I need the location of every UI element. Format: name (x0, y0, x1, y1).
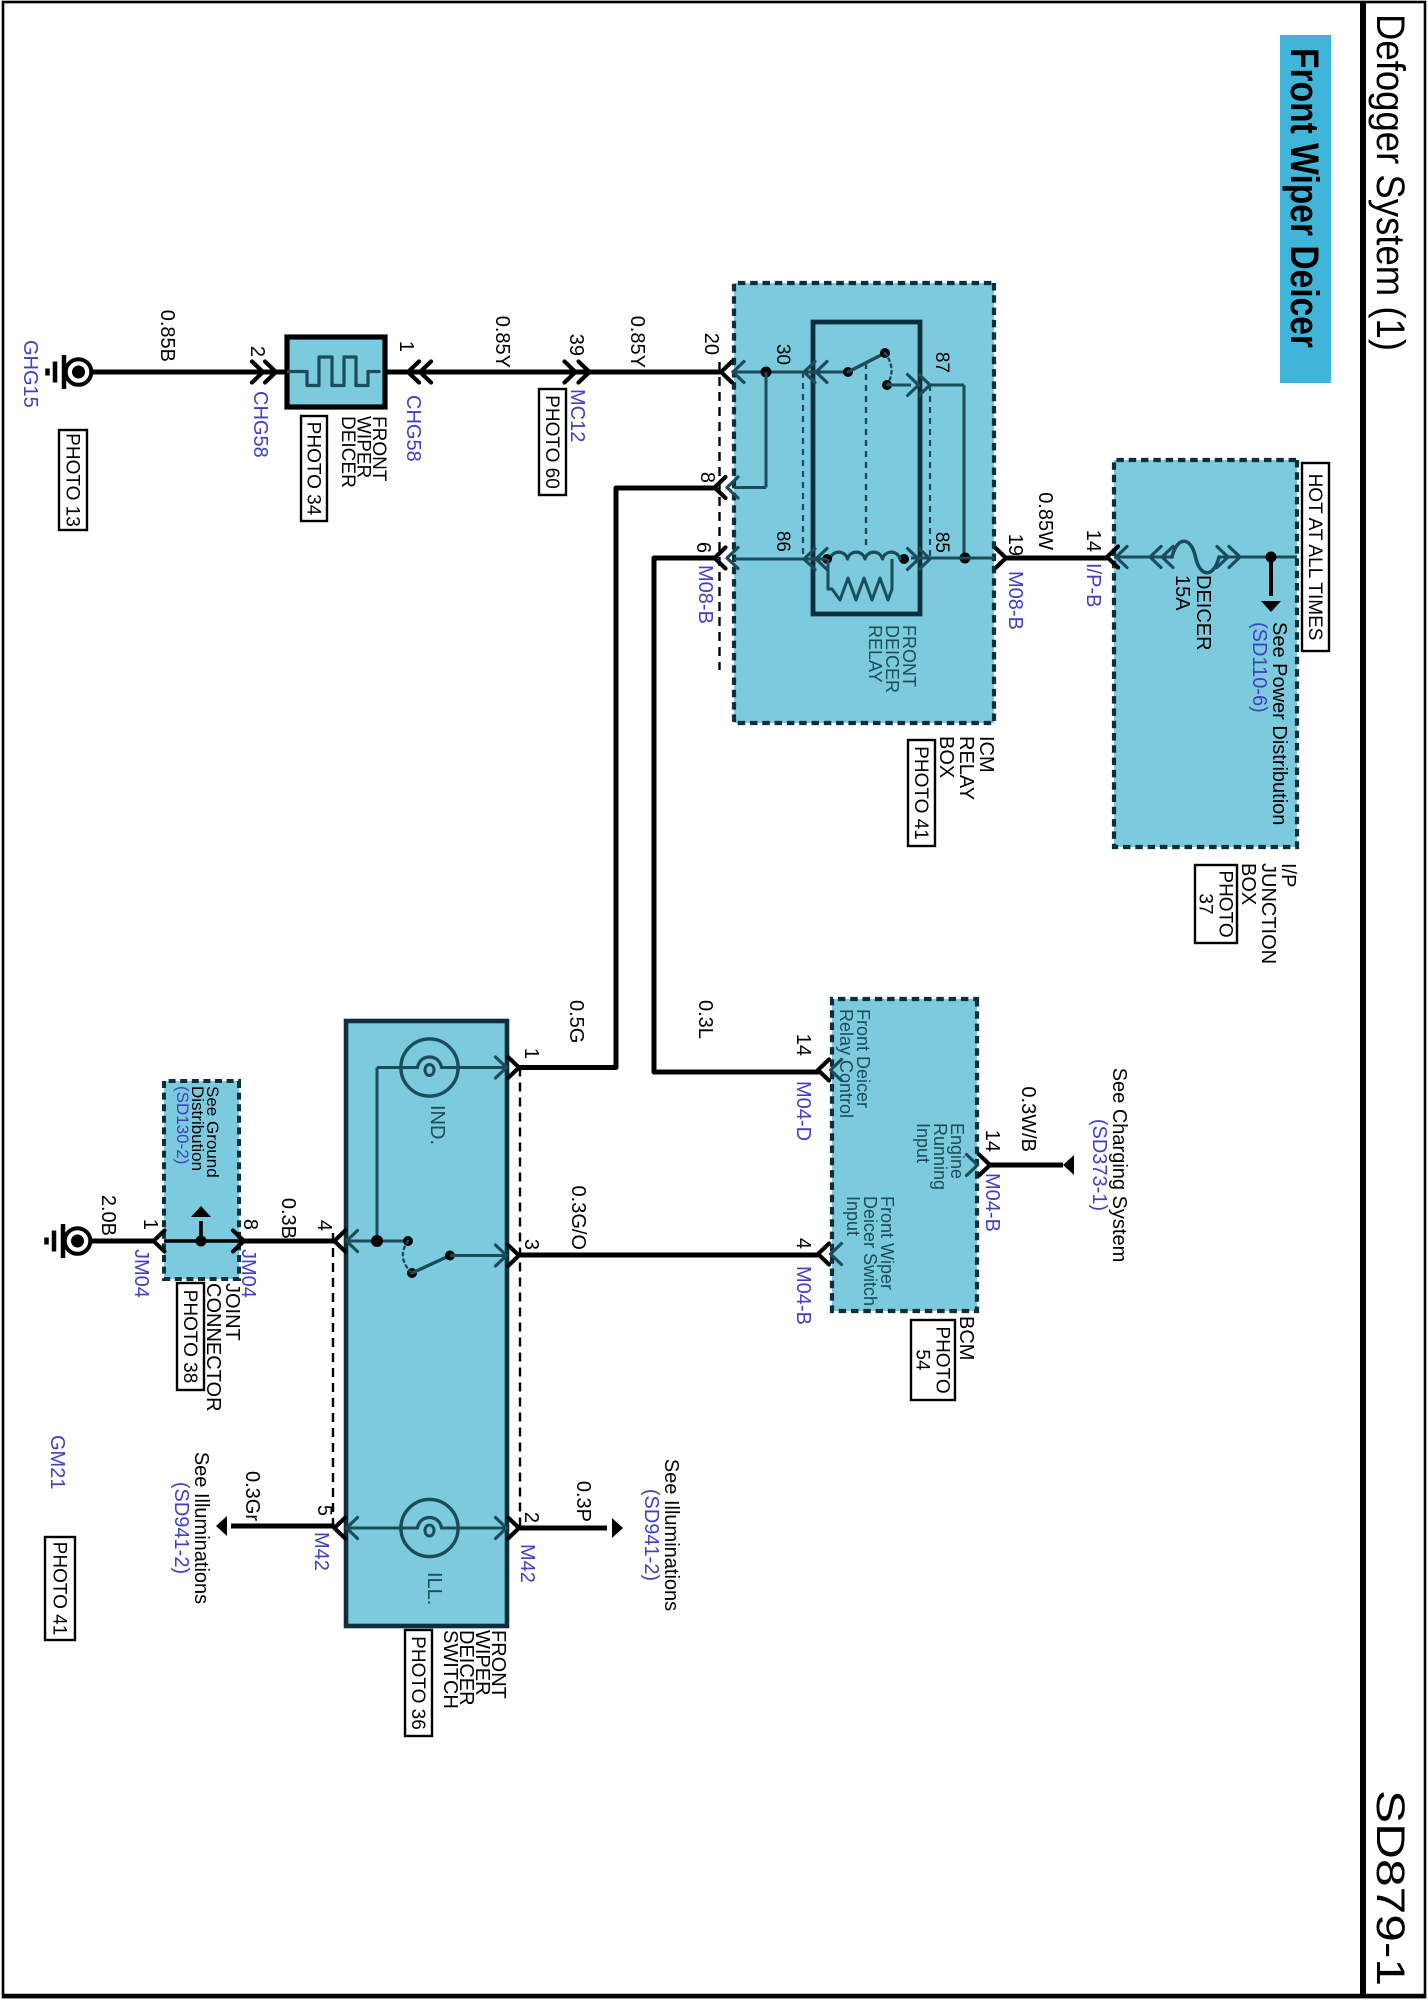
svg-text:PHOTO 60: PHOTO 60 (541, 395, 562, 489)
BCM pin 4 M04-B chevron (818, 1244, 829, 1265)
wire pin 87 up (930, 384, 964, 387)
svg-text:DEICER: DEICER (1192, 575, 1214, 651)
switch travel arc (403, 1241, 412, 1273)
relay pin 87 chevrons (919, 375, 930, 396)
svg-text:0.85Y: 0.85Y (491, 316, 513, 368)
I/P junction box (1114, 460, 1297, 847)
svg-text:BCM: BCM (955, 1316, 977, 1360)
ground GHG15 (66, 359, 92, 385)
svg-text:Input: Input (843, 1196, 863, 1236)
switch pin 1 chevron (508, 1057, 519, 1078)
svg-text:IND.: IND. (426, 1105, 448, 1145)
svg-text:I/P-B: I/P-B (1082, 563, 1104, 607)
svg-text:3: 3 (520, 1239, 542, 1250)
switch pin 1 inner chevron (496, 1057, 507, 1078)
arrow to power distribution (1261, 601, 1281, 612)
svg-text:ICM: ICM (975, 736, 997, 773)
svg-text:86: 86 (772, 531, 793, 552)
wire 2.0B (89, 1239, 154, 1244)
wire 0.85B feed (90, 370, 287, 375)
wire 0.3G/O (519, 1253, 818, 1258)
junction node in I/P box (1266, 552, 1277, 563)
junction node coil/87 (960, 553, 971, 564)
svg-text:0.3L: 0.3L (694, 1000, 716, 1039)
wire 0.5G (519, 488, 715, 1068)
svg-text:4: 4 (313, 1220, 335, 1231)
junction node IND/pin4 (371, 1235, 383, 1247)
svg-text:See Illuminations: See Illuminations (660, 1459, 682, 1611)
arrow to illuminations (0.3P) (612, 1518, 623, 1538)
svg-text:4: 4 (792, 1238, 814, 1249)
joint connector box (164, 1081, 239, 1279)
coil top node (899, 554, 909, 564)
arrow from charging system (1063, 1155, 1074, 1175)
arrow to ground distribution (191, 1206, 211, 1217)
svg-text:0.3G/O: 0.3G/O (567, 1186, 589, 1250)
wire branch to power distribution (1269, 557, 1273, 596)
svg-text:CHG58: CHG58 (402, 395, 424, 462)
switch moving end (407, 1268, 417, 1278)
wire IND to switch node (376, 1068, 379, 1242)
IND lamp (401, 1039, 458, 1096)
svg-text:See Power Distribution: See Power Distribution (1268, 622, 1290, 825)
wire 0.3P (519, 1526, 607, 1531)
pin 14 inner chevron (1116, 547, 1127, 568)
joint connector junction node (196, 1236, 207, 1247)
coil bottom node (822, 554, 832, 564)
svg-text:85: 85 (931, 532, 952, 553)
svg-text:15A: 15A (1171, 575, 1193, 611)
svg-text:GM21: GM21 (46, 1435, 68, 1489)
BCM pin 4 inner chevron (831, 1244, 842, 1265)
connector MC12 pin 39 chevrons (579, 362, 590, 383)
svg-text:CHG58: CHG58 (249, 391, 271, 458)
joint connector pin 1 chevron (154, 1231, 165, 1252)
BCM box (832, 999, 977, 1311)
svg-text:M04-B: M04-B (792, 1266, 814, 1325)
switch pin 5 chevron (334, 1518, 345, 1539)
svg-text:PHOTO 34: PHOTO 34 (303, 422, 324, 516)
wire pin 4 to contact (346, 1240, 408, 1243)
title separator line (1360, 2, 1366, 1997)
svg-text:M08-B: M08-B (694, 565, 716, 624)
switch fixed contact (403, 1236, 413, 1246)
svg-text:PHOTO 41: PHOTO 41 (910, 746, 931, 840)
fuse bottom chevrons (1150, 547, 1161, 568)
svg-text:PHOTO: PHOTO (1215, 870, 1236, 937)
svg-text:6: 6 (692, 542, 714, 553)
switch pin 5 inner chevron (347, 1518, 358, 1539)
wire pin 87 to coil node (963, 385, 966, 558)
wire pivot to pin 3 (450, 1254, 507, 1257)
switch pin 4 inner chevron (347, 1231, 358, 1252)
wire branch to ground distribution (199, 1221, 203, 1241)
label PHOTO 60 (539, 389, 566, 495)
switch pin 2 chevron (508, 1518, 519, 1539)
ILL lamp (401, 1499, 458, 1556)
svg-text:39: 39 (565, 334, 587, 356)
svg-text:0.5G: 0.5G (565, 1000, 587, 1043)
wire inside joint connector (164, 1239, 239, 1242)
svg-text:See Charging System: See Charging System (1108, 1068, 1130, 1263)
wire coil to pin 6 (734, 558, 827, 561)
svg-text:M42: M42 (516, 1544, 538, 1583)
label HOT AT ALL TIMES (1302, 463, 1329, 651)
svg-text:PHOTO 13: PHOTO 13 (62, 433, 83, 527)
svg-text:0.3P: 0.3P (572, 1481, 594, 1522)
joint connector pin 8 chevron (233, 1231, 244, 1252)
wire contact to pin 87 (887, 384, 911, 387)
svg-text:0.85W: 0.85W (1034, 492, 1056, 550)
page border right edge (3, 1994, 1425, 1999)
svg-text:PHOTO: PHOTO (932, 1326, 953, 1393)
svg-text:0.85B: 0.85B (156, 310, 178, 362)
svg-text:20: 20 (700, 333, 722, 355)
arrow to illuminations (0.3Gr) (216, 1516, 227, 1536)
connector M42 dashed line bottom (332, 1233, 334, 1528)
svg-text:30: 30 (772, 344, 793, 365)
BCM pin 14 M04-D chevron (818, 1060, 829, 1081)
svg-text:BOX: BOX (1237, 863, 1259, 905)
svg-text:1: 1 (520, 1048, 542, 1059)
svg-text:1: 1 (395, 341, 417, 352)
svg-text:0.3B: 0.3B (277, 1198, 299, 1239)
relay pin 86 chevrons (804, 549, 815, 570)
svg-text:1: 1 (139, 1219, 161, 1230)
svg-text:JM04: JM04 (130, 1249, 152, 1298)
label PHOTO 13 (59, 430, 87, 530)
wire node to pin 8 (765, 372, 768, 488)
label PHOTO 37 (1195, 865, 1237, 943)
svg-text:PHOTO 38: PHOTO 38 (179, 1290, 200, 1384)
svg-text:DEICER: DEICER (337, 416, 358, 488)
svg-text:Input: Input (913, 1123, 933, 1163)
wire ILL lamp to pin 5 (346, 1527, 401, 1530)
relay upper pins dashed join (929, 385, 931, 559)
relay pin 30 chevrons (804, 362, 815, 383)
svg-text:14: 14 (1082, 530, 1104, 552)
svg-text:PHOTO 36: PHOTO 36 (407, 1636, 428, 1730)
svg-text:M04-B: M04-B (981, 1173, 1003, 1232)
label PHOTO 38 (177, 1283, 204, 1390)
relay coil (830, 552, 900, 559)
ground GM21 (65, 1228, 91, 1254)
connector M08-B dashed line (718, 362, 720, 670)
wire I/P fuse feed upper (1219, 556, 1297, 559)
diagram title bar (1280, 35, 1331, 383)
relay pin 85 chevrons (919, 549, 930, 570)
svg-text:0.3W/B: 0.3W/B (1017, 1086, 1039, 1152)
BCM pin 14 top inner chevron (967, 1155, 978, 1176)
connector CHG58 pin 2 chevrons (265, 362, 276, 383)
switch pin 3 inner chevron (496, 1245, 507, 1266)
label PHOTO 34 (301, 416, 327, 521)
svg-text:PHOTO 41: PHOTO 41 (49, 1542, 70, 1636)
pin 20 chevron (721, 362, 732, 383)
svg-text:(SD110-6): (SD110-6) (1248, 622, 1270, 713)
svg-text:M42: M42 (310, 1532, 332, 1571)
svg-text:2.0B: 2.0B (97, 1195, 119, 1236)
svg-text:(SD373-1): (SD373-1) (1088, 1119, 1110, 1211)
svg-text:(SD941-2): (SD941-2) (640, 1489, 662, 1581)
svg-text:See Illuminations: See Illuminations (190, 1452, 212, 1604)
front wiper deicer component box (287, 337, 385, 407)
relay resistor (828, 578, 892, 600)
pin 8 chevron (715, 477, 726, 498)
label PHOTO 41 (GM21) (45, 1537, 75, 1640)
pin 19 chevron (995, 548, 1006, 569)
label PHOTO 54 (911, 1320, 955, 1400)
svg-text:87: 87 (931, 352, 952, 373)
svg-text:2: 2 (246, 346, 268, 357)
wire pin 19 to pin 85 (911, 557, 994, 560)
switch pin 4 chevron (334, 1231, 345, 1252)
switch pin 2 inner chevron (496, 1518, 507, 1539)
svg-text:54: 54 (912, 1349, 933, 1371)
relay lower pins dashed join (802, 372, 804, 559)
wire pin 8 drop (734, 486, 766, 489)
label PHOTO 41 (908, 740, 935, 846)
svg-text:MC12: MC12 (566, 389, 588, 442)
svg-text:BOX: BOX (935, 736, 957, 778)
wire pin30 to pin20 (734, 371, 848, 374)
deicer heater element symbol (288, 357, 379, 386)
pin 14 chevron I/P-B (1107, 547, 1118, 568)
pin 19 inner chevron (983, 548, 994, 569)
svg-text:(SD941-2): (SD941-2) (170, 1482, 192, 1574)
wire pin 2 to ILL lamp (458, 1527, 507, 1530)
svg-text:GHG15: GHG15 (19, 340, 41, 408)
svg-text:14: 14 (792, 1034, 814, 1056)
svg-text:2: 2 (520, 1512, 542, 1523)
wire 0.3Gr (231, 1524, 334, 1529)
resistor top stub (891, 559, 894, 589)
svg-text:Front Wiper Deicer: Front Wiper Deicer (1282, 48, 1326, 348)
svg-text:JUNCTION: JUNCTION (1257, 863, 1279, 964)
svg-text:0.3Gr: 0.3Gr (241, 1471, 263, 1521)
svg-text:(SD130-2): (SD130-2) (173, 1086, 192, 1164)
svg-text:M08-B: M08-B (1004, 571, 1026, 630)
ICM relay box (734, 283, 994, 723)
relay NO contact (882, 380, 892, 390)
relay common contact (843, 367, 853, 377)
pin 8 inner chevron (727, 477, 738, 498)
label PHOTO 36 (405, 1630, 432, 1736)
wire 0.85Y feed (385, 370, 721, 375)
BCM pin 14 inner chevron (831, 1060, 842, 1081)
wire 0.3L (654, 558, 818, 1072)
svg-text:14: 14 (981, 1130, 1003, 1152)
svg-text:19: 19 (1004, 534, 1026, 556)
connector M42 dashed line top (519, 1068, 521, 1530)
BCM pin 14 M04-B chevron (979, 1155, 990, 1176)
relay contact travel arc (885, 353, 892, 385)
svg-text:5: 5 (313, 1505, 335, 1516)
switch pin 3 chevron (508, 1245, 519, 1266)
svg-text:RELAY: RELAY (955, 736, 977, 800)
svg-text:Defogger System (1): Defogger System (1) (1368, 14, 1412, 351)
svg-text:37: 37 (1195, 893, 1216, 914)
fuse DEICER 15A element (1172, 541, 1219, 573)
front wiper deicer switch box (346, 1021, 507, 1626)
fuse top chevrons (1229, 547, 1240, 568)
pin 20 inner chevron (733, 362, 744, 383)
svg-text:CONNECTOR: CONNECTOR (202, 1283, 224, 1412)
connector CHG58 pin 1 chevrons (408, 362, 419, 383)
svg-text:HOT AT ALL TIMES: HOT AT ALL TIMES (1304, 474, 1325, 641)
svg-text:RELAY: RELAY (865, 625, 885, 683)
relay armature end (880, 348, 890, 358)
svg-text:ILL.: ILL. (423, 1572, 445, 1605)
switch pivot (445, 1251, 455, 1261)
svg-text:SWITCH: SWITCH (439, 1630, 461, 1709)
wire I/P fuse feed lower (1114, 556, 1172, 559)
junction node to pin 8 (761, 367, 772, 378)
relay armature (848, 353, 885, 372)
wire 0.3B (239, 1239, 334, 1244)
wire IND lamp down (377, 1066, 401, 1069)
svg-text:I/P: I/P (1277, 863, 1299, 887)
svg-text:0.85Y: 0.85Y (626, 316, 648, 368)
relay actuation dashed link (865, 363, 867, 548)
wire 0.3W/B (990, 1163, 1063, 1168)
pin 6 chevron (715, 548, 726, 569)
front deicer relay outline (813, 322, 920, 614)
resistor bottom stub (827, 559, 830, 589)
wire pin1 to IND lamp (458, 1066, 507, 1069)
svg-text:SD879-1: SD879-1 (1368, 1790, 1412, 1986)
wire 0.85W (1006, 556, 1107, 561)
switch armature (412, 1256, 450, 1274)
svg-text:8: 8 (239, 1219, 261, 1230)
svg-text:8: 8 (696, 472, 718, 483)
pin 6 inner chevron (727, 548, 738, 569)
svg-text:M04-D: M04-D (792, 1081, 814, 1141)
